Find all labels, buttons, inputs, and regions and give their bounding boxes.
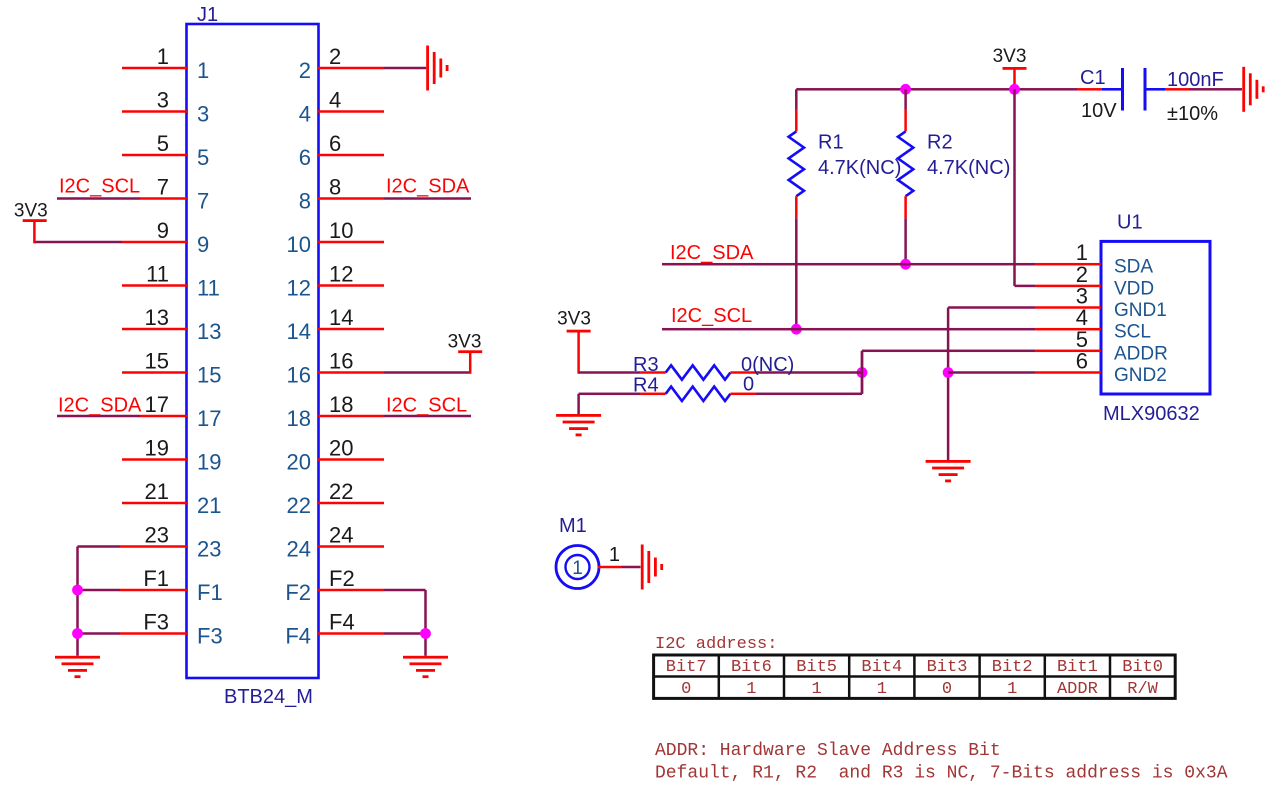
svg-text:I2C_SDA: I2C_SDA xyxy=(670,242,754,264)
svg-text:VDD: VDD xyxy=(1114,278,1154,299)
svg-text:R3: R3 xyxy=(633,354,659,376)
ground (R4) xyxy=(556,414,601,436)
U1 pin 2 xyxy=(1036,285,1101,288)
resistor R1 xyxy=(789,131,804,196)
svg-text:1: 1 xyxy=(877,680,887,699)
svg-text:1: 1 xyxy=(157,44,169,69)
power symbol 3V3 (R3) xyxy=(567,330,591,333)
svg-text:U1: U1 xyxy=(1117,212,1143,234)
svg-text:22: 22 xyxy=(329,479,353,504)
J1 pin 12 xyxy=(318,284,384,287)
wire vertical R4 up to ADDR xyxy=(861,351,864,394)
junction node F1/GND xyxy=(72,585,83,596)
wire vertical GND1/GND2 to ground xyxy=(947,308,950,461)
wire 3V3 stem to rail xyxy=(1013,69,1016,91)
svg-text:15: 15 xyxy=(197,363,221,388)
svg-text:BTB24_M: BTB24_M xyxy=(224,686,313,708)
U1 pin 4 xyxy=(1036,328,1101,331)
svg-text:3: 3 xyxy=(197,102,209,127)
resistor R2 bottom lead xyxy=(904,196,907,218)
svg-text:6: 6 xyxy=(329,131,341,156)
J1 pin 15 xyxy=(122,371,188,374)
svg-text:4: 4 xyxy=(299,102,311,127)
wire R4 to ADDR node xyxy=(756,393,862,396)
wire J1 pin 16 to 3V3 xyxy=(384,371,471,374)
wire vertical ADDR to R3/R4 xyxy=(861,351,864,394)
U1 pin 1 xyxy=(1036,263,1101,266)
svg-text:1: 1 xyxy=(572,558,583,579)
svg-text:SCL: SCL xyxy=(1114,322,1151,343)
J1 pin F2 xyxy=(318,589,384,592)
ground (M1) xyxy=(641,545,663,590)
J1 pin 18 xyxy=(318,415,384,418)
wire R2 to I2C_SDA xyxy=(904,218,907,264)
wire 3V3 to R3 left xyxy=(579,371,641,374)
svg-text:10: 10 xyxy=(329,218,353,243)
J1 pin 22 xyxy=(318,502,384,505)
resistor R2 top lead xyxy=(904,109,907,131)
power symbol 3V3 (top rail) xyxy=(1003,67,1027,70)
svg-text:10V: 10V xyxy=(1081,100,1117,122)
svg-text:9: 9 xyxy=(157,218,169,243)
svg-text:6: 6 xyxy=(1076,349,1088,374)
svg-text:9: 9 xyxy=(197,232,209,257)
svg-text:4.7K(NC): 4.7K(NC) xyxy=(927,157,1010,179)
wire GND to J1 pin F3 xyxy=(78,632,121,635)
junction node 3V3/rail xyxy=(1009,84,1020,95)
svg-text:I2C_SCL: I2C_SCL xyxy=(59,176,140,198)
svg-text:20: 20 xyxy=(287,450,311,475)
junction node F3/GND xyxy=(72,628,83,639)
J1 pin 6 xyxy=(318,154,384,157)
J1 pin 8 xyxy=(318,197,384,200)
svg-text:R4: R4 xyxy=(633,375,659,397)
U1 pin 3 xyxy=(1036,306,1101,309)
J1 pin 3 xyxy=(122,110,188,113)
svg-text:12: 12 xyxy=(329,262,353,287)
svg-text:1: 1 xyxy=(609,544,620,566)
J1 pin 20 xyxy=(318,458,384,461)
svg-text:3V3: 3V3 xyxy=(557,309,591,330)
J1 pin 24 xyxy=(318,545,384,548)
wire net from J1 pin 18 xyxy=(384,415,471,418)
svg-text:I2C address:: I2C address: xyxy=(655,635,777,654)
capacitor C1 pin 1 xyxy=(1077,88,1102,91)
svg-text:F1: F1 xyxy=(143,566,169,591)
svg-text:18: 18 xyxy=(287,406,311,431)
svg-text:ADDR: ADDR xyxy=(1057,680,1098,699)
mounting hole M1 symbol xyxy=(556,546,599,589)
svg-text:2: 2 xyxy=(299,58,311,83)
svg-text:8: 8 xyxy=(299,189,311,214)
svg-text:21: 21 xyxy=(145,479,169,504)
resistor R4 xyxy=(666,387,731,401)
table I2C address bits xyxy=(654,655,1176,699)
junction node R2/SDA xyxy=(900,259,911,270)
svg-text:R1: R1 xyxy=(818,132,844,154)
svg-text:R/W: R/W xyxy=(1127,680,1158,699)
junction node ADDR/R3/R4 xyxy=(857,367,868,378)
svg-text:1: 1 xyxy=(1007,680,1017,699)
svg-text:11: 11 xyxy=(146,262,169,287)
IC U1 body xyxy=(1101,241,1210,394)
svg-text:0: 0 xyxy=(743,374,754,396)
J1 pin F4 xyxy=(318,632,384,635)
svg-text:Bit5: Bit5 xyxy=(796,658,837,677)
svg-text:13: 13 xyxy=(197,319,221,344)
svg-text:0: 0 xyxy=(942,680,952,699)
J1 pin 4 xyxy=(318,110,384,113)
wire net to J1 pin 17 xyxy=(57,415,140,418)
wire rail to R1 xyxy=(795,89,798,109)
svg-text:16: 16 xyxy=(287,363,311,388)
resistor R2 xyxy=(898,131,913,196)
svg-text:10: 10 xyxy=(287,232,311,257)
svg-text:0: 0 xyxy=(681,680,691,699)
connector J1 body xyxy=(187,24,319,678)
J1 pin 10 xyxy=(318,241,384,244)
U1 pin 5 xyxy=(1036,350,1101,353)
svg-text:SDA: SDA xyxy=(1114,257,1153,278)
svg-text:6: 6 xyxy=(299,145,311,170)
svg-text:21: 21 xyxy=(197,493,221,518)
svg-text:3: 3 xyxy=(157,88,169,113)
svg-text:12: 12 xyxy=(287,276,311,301)
svg-text:GND2: GND2 xyxy=(1114,365,1167,386)
wire net I2C_SDA xyxy=(662,263,1036,266)
ground (J1 pins F2/F4) xyxy=(403,656,448,678)
wire R4 to ground stem xyxy=(577,394,580,414)
svg-text:8: 8 xyxy=(329,175,341,200)
svg-text:3V3: 3V3 xyxy=(448,332,482,353)
wire net to J1 pin 7 xyxy=(57,197,140,200)
svg-text:18: 18 xyxy=(329,392,353,417)
svg-text:7: 7 xyxy=(197,189,209,214)
svg-text:1: 1 xyxy=(197,58,209,83)
capacitor C1 pin 2 xyxy=(1165,88,1189,91)
svg-text:16: 16 xyxy=(329,349,353,374)
wire net from J1 pin 8 xyxy=(384,197,471,200)
svg-text:Bit2: Bit2 xyxy=(992,658,1033,677)
J1 pin 7 xyxy=(140,197,188,200)
svg-text:13: 13 xyxy=(145,305,169,330)
svg-text:4: 4 xyxy=(329,88,341,113)
wire R3 to ADDR node xyxy=(756,371,862,374)
svg-text:4.7K(NC): 4.7K(NC) xyxy=(818,157,901,179)
svg-text:M1: M1 xyxy=(559,515,587,537)
svg-text:±10%: ±10% xyxy=(1167,103,1218,125)
wire 3V3 rail xyxy=(796,88,1077,91)
wire net I2C_SCL xyxy=(662,328,1036,331)
svg-text:GND1: GND1 xyxy=(1114,300,1167,321)
ground (J1 pin 2) xyxy=(426,46,448,91)
wire GND2 horizontal xyxy=(948,371,1036,374)
svg-text:Bit0: Bit0 xyxy=(1122,658,1163,677)
svg-text:Bit6: Bit6 xyxy=(731,658,772,677)
svg-text:F1: F1 xyxy=(197,580,223,605)
J1 pin 21 xyxy=(122,502,188,505)
svg-text:7: 7 xyxy=(157,175,169,200)
svg-text:F2: F2 xyxy=(329,566,355,591)
svg-text:F4: F4 xyxy=(285,624,311,649)
wire J1 pin F4 to ground xyxy=(384,632,426,635)
svg-text:I2C_SDA: I2C_SDA xyxy=(386,176,470,198)
wire M1 to ground xyxy=(622,566,641,569)
wire GND1 xyxy=(948,306,1036,309)
resistor R4 right lead xyxy=(730,393,755,396)
svg-text:24: 24 xyxy=(287,537,311,562)
J1 pin 2 xyxy=(318,67,384,70)
svg-text:24: 24 xyxy=(329,523,353,548)
J1 pin 14 xyxy=(318,328,384,331)
J1 pin 23 xyxy=(120,545,188,548)
wire ADDR xyxy=(862,350,1036,353)
wire 3V3 stem to R3 xyxy=(577,331,580,374)
ground (U1 GND1/GND2) xyxy=(926,460,971,482)
svg-text:Default, R1, R2 and R3 is NC,: Default, R1, R2 and R3 is NC, 7-Bits add… xyxy=(655,764,1228,784)
svg-text:5: 5 xyxy=(197,145,209,170)
svg-text:I2C_SDA: I2C_SDA xyxy=(58,395,142,417)
svg-text:3V3: 3V3 xyxy=(993,46,1027,67)
wire J1 pin F2 to ground xyxy=(384,589,426,592)
svg-text:1: 1 xyxy=(811,680,821,699)
J1 pin 1 xyxy=(122,67,188,70)
J1 pin 11 xyxy=(122,284,188,287)
svg-text:C1: C1 xyxy=(1080,67,1106,89)
svg-text:19: 19 xyxy=(197,450,221,475)
svg-text:23: 23 xyxy=(145,523,169,548)
svg-text:F4: F4 xyxy=(329,610,355,635)
J1 pin 17 xyxy=(140,415,188,418)
svg-text:3V3: 3V3 xyxy=(14,201,48,222)
resistor R3 left lead xyxy=(641,371,666,374)
junction node R1/SCL xyxy=(791,324,802,335)
svg-text:J1: J1 xyxy=(197,4,218,26)
svg-text:15: 15 xyxy=(145,349,169,374)
wire vertical GND bus left xyxy=(76,547,79,656)
svg-text:I2C_SCL: I2C_SCL xyxy=(386,395,467,417)
wire 3V3 stem to pin 9 xyxy=(33,221,36,243)
svg-text:20: 20 xyxy=(329,436,353,461)
svg-text:Bit1: Bit1 xyxy=(1057,658,1098,677)
ground (C1) xyxy=(1242,67,1264,112)
svg-text:Bit3: Bit3 xyxy=(927,658,968,677)
svg-text:Bit4: Bit4 xyxy=(861,658,902,677)
wire rail to R2 xyxy=(904,89,907,109)
wire ground to R4 left xyxy=(579,393,641,396)
junction node GND2 xyxy=(943,367,954,378)
wire C1 to ground xyxy=(1189,88,1242,91)
svg-text:19: 19 xyxy=(145,436,169,461)
svg-text:22: 22 xyxy=(287,493,311,518)
J1 pin 5 xyxy=(122,154,188,157)
wire VDD horizontal xyxy=(1015,285,1036,288)
wire GND to J1 pin 23 xyxy=(78,545,121,548)
wire vertical GND from F2 xyxy=(424,590,427,656)
power symbol 3V3 (J1 pin 9) xyxy=(23,219,47,222)
junction node F4/GND xyxy=(420,628,431,639)
J1 pin 16 xyxy=(318,371,384,374)
svg-text:14: 14 xyxy=(329,305,353,330)
svg-text:17: 17 xyxy=(145,392,169,417)
J1 pin 9 xyxy=(122,241,188,244)
wire 3V3 to J1 pin 9 xyxy=(35,241,123,244)
U1 pin 6 xyxy=(1036,371,1101,374)
svg-text:R2: R2 xyxy=(927,132,953,154)
J1 pin F1 xyxy=(120,589,188,592)
M1 pin 1 xyxy=(598,566,622,569)
wire GND to J1 pin F1 xyxy=(78,589,121,592)
J1 pin 13 xyxy=(122,328,188,331)
svg-text:ADDR: ADDR xyxy=(1114,343,1168,364)
resistor R4 left lead xyxy=(641,393,666,396)
svg-text:100nF: 100nF xyxy=(1167,69,1224,91)
svg-text:F3: F3 xyxy=(143,610,169,635)
resistor R1 bottom lead xyxy=(795,196,798,218)
J1 pin 19 xyxy=(122,458,188,461)
svg-text:1: 1 xyxy=(746,680,756,699)
svg-text:I2C_SCL: I2C_SCL xyxy=(671,305,752,327)
svg-text:5: 5 xyxy=(157,131,169,156)
svg-text:17: 17 xyxy=(197,406,221,431)
wire J1 pin 2 to ground xyxy=(384,67,426,70)
wire 3V3 to U1 VDD xyxy=(1013,89,1016,286)
svg-text:11: 11 xyxy=(197,276,220,301)
junction node R2/rail xyxy=(900,84,911,95)
resistor R3 xyxy=(666,365,731,379)
svg-text:F3: F3 xyxy=(197,624,223,649)
svg-text:14: 14 xyxy=(287,319,311,344)
svg-text:2: 2 xyxy=(329,44,341,69)
svg-text:ADDR: Hardware Slave Address B: ADDR: Hardware Slave Address Bit xyxy=(655,741,1001,761)
resistor R3 right lead xyxy=(730,371,755,374)
svg-text:MLX90632: MLX90632 xyxy=(1103,403,1200,425)
capacitor C1 xyxy=(1102,68,1166,111)
svg-text:F2: F2 xyxy=(285,580,311,605)
wire 3V3 stem to pin 16 xyxy=(469,352,472,374)
J1 pin F3 xyxy=(120,632,188,635)
resistor R1 top lead xyxy=(795,109,798,131)
ground (J1 pins 23/F1/F3) xyxy=(55,656,100,678)
svg-text:Bit7: Bit7 xyxy=(666,658,707,677)
power symbol 3V3 (J1 pin 16) xyxy=(458,350,482,353)
wire R1 to I2C_SCL xyxy=(795,218,798,329)
svg-text:23: 23 xyxy=(197,537,221,562)
